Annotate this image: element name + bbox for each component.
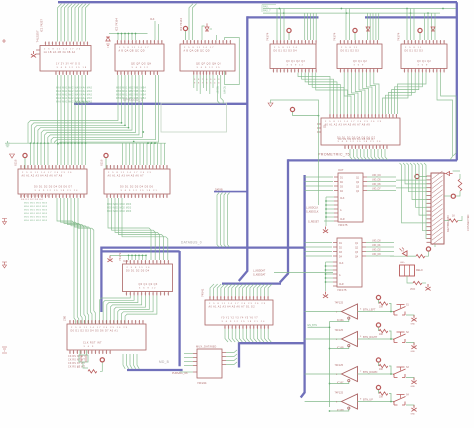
svg-text:VOO: VOO [410,289,415,291]
svg-text:Q0 Q1 Q2: Q0 Q1 Q2 [353,60,367,63]
svg-text:74374: 74374 [266,32,270,41]
svg-text:PROMETRIC_75: PROMETRIC_75 [318,152,350,156]
power VCC IC16A [376,295,380,303]
label S_KBDDAT [253,270,266,277]
IC IC5 74LS374 [333,32,383,72]
svg-text:D0 D1 D2 D3 D4 D5 D6: D0 D1 D2 D3 D4 D5 D6 [120,186,154,189]
wire bus to buffer IC16C [305,373,342,375]
svg-text:74F125: 74F125 [335,391,344,394]
svg-text:IC16B: IC16B [337,347,344,350]
IC IC11 Z80 CPU [63,315,147,354]
wire bus taps to IC3 [189,4,197,40]
svg-text:UIO_D5: UIO_D5 [372,179,381,182]
label net names under IC11 [68,356,85,369]
switch S1 [393,305,410,316]
svg-text:74F125: 74F125 [335,364,344,367]
svg-text:CK RS NT WT: CK RS NT WT [68,356,85,358]
wire bus to buffer IC16B [305,338,342,340]
op-amp buffer IC16C 74F125 [335,364,363,385]
ground buzzer [425,284,430,290]
wire bus taps to IC1 [58,4,90,42]
svg-text:1A 1B 2A 2B 3A 3B 4A: 1A 1B 2A 2B 3A 3B 4A [44,51,76,54]
svg-text:S_KBDCLK: S_KBDCLK [306,211,319,214]
wire VCC to connector pin [444,195,451,197]
svg-text:EN_BTN: EN_BTN [308,324,318,327]
svg-text:DATABUS_0: DATABUS_0 [181,241,202,245]
wire switch to ground S2 [406,343,414,345]
diode D2 [205,23,209,31]
power VCC IC_L2 [104,153,108,169]
power VCC IC6 [418,28,422,40]
IC IC13 74HCT541 [201,288,274,329]
svg-text:74541: 74541 [201,288,205,297]
bus MAINBUS right vertical [456,2,458,160]
bus MAINBUS lower horizontal [288,159,457,161]
svg-text:MA0 MA1 MA2 MA3 MA4 MA5: MA0 MA1 MA2 MA3 MA4 MA5 [56,97,93,100]
wire UIO to connector [396,180,427,188]
svg-text:74F175: 74F175 [337,288,347,292]
label net names under IC_L1 [21,196,49,223]
crystal Q1 [79,355,88,362]
wire IC15 control common [326,262,334,291]
ground S4 [411,405,417,416]
power VCC R2 [451,194,455,198]
svg-text:MELO: MELO [416,269,423,272]
bus DATABUS lower horizontal [101,250,179,252]
svg-text:SPRAGU_0: SPRAGU_0 [123,98,143,102]
svg-text:1K: 1K [452,215,455,218]
IC IC10 74LS373 [118,252,173,295]
svg-text:3 6 9 12 15 18 21 24: 3 6 9 12 15 18 21 24 [222,321,266,323]
svg-text:A0 A1 A2 A3 A4 A5 A6 A7 A8: A0 A1 A2 A3 A4 A5 A6 A7 A8 [22,174,63,177]
wire R2 connections [453,171,460,196]
svg-text:D0 D1 D2 D3 D4 D5 D6 D7 A0 A1: D0 D1 D2 D3 D4 D5 D6 D7 A0 A1 [71,329,119,332]
wire pullup BTN_DOWN [389,366,391,374]
switch S3 [393,367,410,378]
wire enable IC16A [330,319,349,321]
power VCC IC11 [100,358,104,362]
svg-text:QE QF QG QH QI: QE QF QG QH QI [196,63,221,66]
label UIO_D0..3 [372,240,381,257]
svg-text:BTN_RIGHT: BTN_RIGHT [363,336,378,339]
svg-text:CONNECTED: CONNECTED [466,214,470,231]
bus IO vertical [301,175,305,398]
svg-text:74F125: 74F125 [335,329,344,332]
svg-text:MD0 MD1 MD2 MD3: MD0 MD1 MD2 MD3 [24,203,48,205]
IC IC1 74LS257 [36,30,92,75]
wire MA rail [8,142,166,144]
bus MAINBUS mid vertical [280,159,288,282]
svg-text:MUX_DAT/KBD: MUX_DAT/KBD [196,345,216,349]
bus ripper horizontal to IC13 [222,282,281,284]
wire taps to IC5 left [346,9,350,41]
node IC2 rail junctions [117,33,136,35]
svg-text:IC10: IC10 [123,260,129,263]
svg-text:RD/WR: RD/WR [222,86,224,94]
wire buzzer connections [407,276,426,283]
wire buffer output BTN_LEFT [358,311,395,313]
diode D4 [431,27,435,31]
label PA0..PA7 [262,5,276,13]
op-amp buffer IC16A 74F125 [335,301,363,322]
wire R3 connections [444,216,462,221]
wire matrix IC4 IC5 IC6 to IC7 [298,73,456,160]
power VCC IC16B [376,323,380,331]
resistor R2 [458,179,462,191]
svg-text:PURSALL_OK: PURSALL_OK [172,372,188,375]
svg-text:3 6 9: 3 6 9 [354,64,365,66]
bus MD vertical [178,251,180,366]
svg-text:UIO_D2: UIO_D2 [372,249,381,252]
svg-text:IC3 74164: IC3 74164 [179,18,183,31]
wire switch to ground S3 [406,378,414,380]
svg-text:MD0 MD1 MD2 MD3: MD0 MD1 MD2 MD3 [24,210,48,212]
svg-text:9 8 7 6 5 4 3: 9 8 7 6 5 4 3 [194,79,220,81]
wire S_RESET [324,220,334,222]
wire IC1 rippers to MEM bus [75,98,88,104]
IC IC15 74F175 [333,238,366,287]
node pullup junction BTN_RIGHT [390,338,392,340]
svg-text:A0 A1 A2 A3 A4 A5 A6 A7 G1 G2: A0 A1 A2 A3 A4 A5 A6 A7 G1 G2 [209,305,256,308]
switch S2 [393,332,410,343]
wire IC2 outputs staircase [28,75,159,145]
svg-text:CLK RST INT: CLK RST INT [83,342,102,345]
svg-text:MA0 MA1 MA2 MA3 MA4 MA5: MA0 MA1 MA2 MA3 MA4 MA5 [56,94,93,97]
wire enable tap to bus [308,326,330,328]
svg-text:GND: GND [411,386,416,388]
wire IC10 to IC11 [100,296,157,325]
svg-text:S_RESET: S_RESET [308,220,319,223]
IC IC14 74F175 [334,173,367,222]
wire taps to IC4 right [305,13,317,40]
svg-text:MD_B: MD_B [159,360,169,364]
label IC15 pins [339,243,359,286]
svg-text:A B QA QB QC QD: A B QA QB QC QD [184,49,210,52]
diode D1 [106,37,111,47]
label left edge mark [2,39,6,43]
svg-text:OUT: OUT [338,168,344,172]
diode D3 [366,27,370,31]
svg-text:O0 O1 O2 O3 O4 O5 O6 O7: O0 O1 O2 O3 O4 O5 O6 O7 [338,138,375,141]
svg-text:RESET: RESET [215,86,217,94]
wire taps to IC5 [367,13,378,40]
ground S3 [411,378,417,389]
svg-text:D0 D1 D2 D3 D4 D5 D6 D7: D0 D1 D2 D3 D4 D5 D6 D7 [34,186,73,189]
power VCC IC16D [376,385,380,393]
svg-text:74373: 74373 [118,252,122,261]
wire IC3 outputs down [194,75,223,104]
svg-text:3 6 9 12 15 18 21 24: 3 6 9 12 15 18 21 24 [35,190,79,192]
wire pullup BTN_UP [389,394,391,402]
svg-text:UIO_D7: UIO_D7 [372,188,381,191]
svg-text:3 6 9: 3 6 9 [418,64,429,66]
ground IC14 [323,227,328,233]
wire R4 to VCC [408,251,429,256]
wire rail to IC_L1 [31,143,86,165]
wire taps to IC4 [277,9,284,41]
svg-text:KEYBOARD: KEYBOARD [446,214,450,232]
power symbol left mid [2,262,7,268]
svg-text:6116: 6116 [100,159,104,166]
node PA rail junctions [279,8,444,14]
node MA rail junctions [30,142,156,144]
svg-text:D0 D1 D2 D3 D4: D0 D1 D2 D3 D4 [126,269,150,272]
svg-text:QE QF QG QH: QE QF QG QH [131,63,151,66]
power VCC IC16C [376,358,380,366]
svg-text:D0 D1 D2 D3: D0 D1 D2 D3 [341,49,360,52]
label UIO_D4..7 [372,174,381,191]
wire IC_L1 data to IC11 [57,198,95,324]
svg-text:BTN_DOWN: BTN_DOWN [363,371,378,374]
power symbol left upper [2,219,7,225]
svg-text:MD0 MD1 MD2 MD3: MD0 MD1 MD2 MD3 [107,204,132,206]
svg-text:PA0..: PA0.. [263,5,269,9]
wire S_KBDDAT [274,272,333,274]
resistor R4 [416,255,425,258]
svg-text:L_KBDDAT: L_KBDDAT [253,270,266,273]
buzzer SG1 [400,265,423,276]
svg-text:CLR: CLR [340,219,345,221]
IC IC9 6116 RAM [100,159,171,198]
svg-text:74F175: 74F175 [338,223,348,227]
wire bus rippers to connector [400,163,427,239]
bus DATABUS left vertical [100,247,102,313]
power symbol under IC4 [268,100,319,205]
resistor R7 10K [379,329,388,336]
wire buffer output BTN_RIGHT [358,338,395,340]
svg-text:D0 D1 D2 D3 D4: D0 D1 D2 D3 D4 [21,199,43,201]
node IC10 rail junctions [128,255,147,257]
wire IC14 control common [326,197,334,226]
svg-text:Y0 Y1 Y2 Y3 Y4 Y5 Y6 Y7: Y0 Y1 Y2 Y3 Y4 Y5 Y6 Y7 [221,317,258,320]
svg-text:3 6 9 12 15 18 21 24: 3 6 9 12 15 18 21 24 [338,141,382,143]
frame ghost box [161,103,227,132]
svg-text:GND: GND [411,351,416,353]
svg-text:9 8 7 6 5 4 3: 9 8 7 6 5 4 3 [194,83,220,85]
svg-text:GND: GND [411,324,416,326]
bus PA left vertical [239,16,248,281]
svg-text:3 6 9 12: 3 6 9 12 [139,287,157,289]
wire bus to IC15 inputs [305,243,332,257]
svg-text:A B QA QB QC QD: A B QA QB QC QD [119,49,145,52]
bus PA horizontal segment 2 [365,16,457,18]
op-amp buffer IC16B 74F125 [335,329,363,350]
svg-text:UIO_D0: UIO_D0 [372,240,381,243]
label net names under IC2 [116,88,146,101]
wire buffer output BTN_UP [358,401,395,403]
ground left edge lower [2,347,7,353]
svg-text:UIO_D6: UIO_D6 [372,183,381,186]
wire IC11 to MD bus [123,354,139,369]
wire IC7 outputs to bus [350,149,388,160]
wire rail to IC_L2 [123,143,165,165]
svg-text:PA0..7: PA0..7 [263,8,271,12]
wire IC14 outputs [367,177,396,191]
label IC7 pin row [323,127,375,142]
power symbol left rail [10,154,15,158]
wire taps to IC6 [407,9,414,41]
svg-text:LED-: LED- [400,262,405,264]
resistor R9 [88,370,97,373]
ground IC10 rail [107,256,112,262]
IC IC7 PROMETRIC [317,114,400,149]
svg-text:S_KBDDAT: S_KBDDAT [253,274,266,277]
wire PA rail 2 [263,12,440,14]
svg-text:3 6 9: 3 6 9 [84,346,95,348]
bus stub near node DATAB [214,191,247,193]
wire IC2 clock stubs [155,21,159,40]
svg-text:3 6 9 12 15 18: 3 6 9 12 15 18 [57,67,88,69]
IC IC2 74LS164 [115,40,164,75]
svg-text:3 6 9 12 15 18 21: 3 6 9 12 15 18 21 [121,190,158,192]
power VCC connector [415,174,427,178]
svg-text:IC1 74257: IC1 74257 [40,19,44,32]
svg-text:10K: 10K [379,369,384,371]
label S_KBDCLK [306,207,319,214]
svg-text:IC16C: IC16C [337,382,344,385]
wire enable IC16D [330,409,349,411]
power VCC below connector [426,247,430,251]
svg-text:MA0 MA1 MA2 MA3 MA4 MA5: MA0 MA1 MA2 MA3 MA4 MA5 [56,90,93,93]
resistor R5 [413,281,422,284]
svg-text:L_KBDCLK: L_KBDCLK [306,207,319,210]
ground IC15 [323,292,328,298]
svg-text:UIO_D4: UIO_D4 [372,174,381,177]
svg-text:10K: 10K [379,307,384,309]
svg-text:IC16D: IC16D [337,409,344,412]
svg-text:CE: CE [323,127,327,129]
IC IC3 74LS164 [180,40,235,75]
node staircase junctions [121,122,144,142]
bus KBD horizontal [239,342,305,344]
svg-text:CLK: CLK [150,19,155,21]
svg-text:MA0 MA1 MA2 MA3 MA4 MA5: MA0 MA1 MA2 MA3 MA4 MA5 [56,87,93,90]
wire buffer output BTN_DOWN [358,373,395,375]
wire enable IC16C [330,382,349,384]
wire IC12 left stubs [180,354,193,373]
IC IC8 6116 RAM [14,159,88,198]
svg-text:MB0 MB1 MB2 MB3 MB4: MB0 MB1 MB2 MB3 MB4 [116,91,146,93]
wire IC2 vcc rail [109,34,148,41]
wire enable IC16B [330,347,349,349]
svg-text:MD0 MD1 MD2 MD3: MD0 MD1 MD2 MD3 [107,211,132,213]
diode D5 [444,172,453,176]
bus PA horizontal segment 1 [247,16,318,18]
wire IC1 outputs down [58,75,86,143]
wire IC3 top loop [202,26,239,85]
svg-text:3 6 9 12: 3 6 9 12 [287,64,305,66]
svg-text:CK RS NT WT: CK RS NT WT [68,360,85,362]
power VCC IC_L1 [23,153,27,169]
wire switch to ground S1 [406,315,414,317]
svg-text:CLK: CLK [340,198,345,200]
svg-text:UIO_D3: UIO_D3 [372,253,381,256]
wire pullup BTN_LEFT [389,304,391,312]
svg-text:3 6 9 12: 3 6 9 12 [132,67,150,69]
node pullup junction BTN_DOWN [390,373,392,375]
ground MA rail [5,141,10,147]
wire IC15 outputs [366,243,394,257]
power VCC IC3 [183,26,187,40]
svg-text:A0 A1 A2 A3 A4 A5 A6 A7: A0 A1 A2 A3 A4 A5 A6 A7 [108,174,145,177]
svg-text:MD0 MD1 MD2 MD3: MD0 MD1 MD2 MD3 [24,217,48,219]
ground S1 [411,315,417,326]
IC IC4 74LS374 [266,32,317,72]
power VCC IC4 [287,28,291,40]
svg-text:6116: 6116 [14,159,18,166]
bus MD bottom horizontal [127,369,183,371]
ground S2 [411,343,417,354]
bus MAINBUS top horizontal [58,1,457,3]
wire IC13 to KBD bus [225,329,271,342]
wire IC12 right to KBD bus [226,350,237,365]
svg-text:Q0 Q1 Q2 Q3: Q0 Q1 Q2 Q3 [139,283,158,286]
svg-text:BTN_UP: BTN_UP [363,398,373,401]
wire connector bottom [390,244,435,256]
bus MEM horizontal [74,103,247,105]
switch S4 [393,395,410,406]
wire crystal connections [80,350,102,371]
node pullup junction BTN_LEFT [390,311,392,313]
svg-text:1Y 2Y 3Y 4Y G S: 1Y 2Y 3Y 4Y G S [56,63,80,66]
svg-text:D0 D1 D2 D3 D4: D0 D1 D2 D3 D4 [274,49,298,52]
svg-text:UIO_D1: UIO_D1 [372,244,381,247]
svg-text:10K: 10K [379,397,384,399]
resistor R8 10K [379,364,388,371]
connector SV1 KEYBOARD [427,171,445,245]
svg-text:74F244: 74F244 [197,381,207,385]
node IC14 control junctions [325,200,327,218]
svg-text:A0 A1 A2 A3 A4 A5 A6 A7 A8 A9: A0 A1 A2 A3 A4 A5 A6 A7 A8 A9 [325,123,371,126]
svg-text:3 6 9 12 15: 3 6 9 12 15 [197,67,221,69]
label net names under IC_L2 [107,204,132,213]
svg-text:BTN_LEFT: BTN_LEFT [363,308,376,311]
svg-text:74374: 74374 [333,32,337,41]
IC IC12 74F244 [193,349,226,378]
svg-text:Q0 Q1 Q2 Q3: Q0 Q1 Q2 Q3 [286,60,305,63]
svg-text:10K: 10K [379,334,384,336]
svg-text:MB0 MB1 MB2 MB3 MB4: MB0 MB1 MB2 MB3 MB4 [116,88,146,90]
svg-text:Z80: Z80 [63,315,67,321]
bus DATABUS horizontal [101,246,304,248]
wire bus to buffer IC16A [305,311,342,313]
resistor R6 10K [379,302,388,309]
svg-text:MA0 MA1 MA2 MA3 MA4 MA5: MA0 MA1 MA2 MA3 MA4 MA5 [56,101,93,104]
svg-text:MD0 MD1 MD2 MD3: MD0 MD1 MD2 MD3 [107,208,132,210]
resistor R3 [449,219,458,222]
svg-text:Q0 Q1 Q2: Q0 Q1 Q2 [417,60,431,63]
LED LED1 [400,248,408,257]
node pullup junction BTN_UP [390,401,392,403]
bus KBD vertical stub [238,342,240,367]
wire IC_L2 data to IC10 [108,198,168,260]
wire switch to ground S4 [406,405,414,407]
svg-text:IC2 74164: IC2 74164 [115,18,119,31]
power VCC IC5 [353,28,357,40]
svg-text:MD0 MD1 MD2 MD3: MD0 MD1 MD2 MD3 [24,220,48,222]
svg-text:CLK: CLK [339,263,344,265]
wire bus to buffer IC16D [305,401,342,403]
IC IC6 74LS374 [397,32,448,72]
wire IC10 vcc rail [110,255,146,260]
label net names under IC1 [56,87,93,104]
label net names under IC3 [194,79,224,94]
svg-text:MD0 MD1 MD2 MD3: MD0 MD1 MD2 MD3 [24,206,48,208]
svg-text:74F125: 74F125 [335,301,344,304]
svg-text:74374: 74374 [397,32,401,41]
wire PA rail 1 [263,8,456,10]
svg-text:CLR: CLR [339,284,344,286]
